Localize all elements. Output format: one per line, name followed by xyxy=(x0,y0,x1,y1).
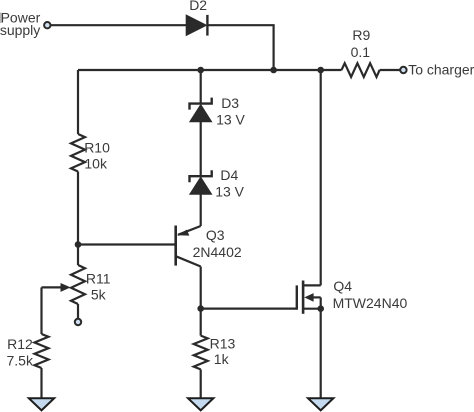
svg-text:R13: R13 xyxy=(210,336,236,352)
svg-text:1k: 1k xyxy=(214,351,230,367)
node: rail / D2 feed junction xyxy=(270,67,277,74)
svg-text:supply: supply xyxy=(0,22,40,38)
svg-text:2N4402: 2N4402 xyxy=(193,244,242,260)
wire: R12 to ground xyxy=(40,368,42,398)
svg-text:R9: R9 xyxy=(352,27,370,43)
ground (Q4 source) xyxy=(308,398,333,410)
label Q3 2N4402 xyxy=(193,227,242,260)
node: R10 / R11 / Q3 base xyxy=(75,241,82,248)
svg-text:Q4: Q4 xyxy=(333,278,352,294)
svg-text:MTW24N40: MTW24N40 xyxy=(333,295,408,311)
transistor Q3 (PNP 2N4402) xyxy=(176,226,201,267)
wire: rail down to Q4 drain xyxy=(320,70,322,285)
wire: rail to D3 cathode xyxy=(200,70,202,104)
terminal: power supply input xyxy=(44,22,50,28)
svg-text:13 V: 13 V xyxy=(215,184,244,200)
svg-text:7.5k: 7.5k xyxy=(7,353,34,369)
zener diode D3 xyxy=(190,98,212,122)
label R11 5k xyxy=(86,270,111,302)
wire: R9 to charger terminal xyxy=(380,69,400,71)
zener diode D4 xyxy=(190,170,212,194)
svg-text:Q3: Q3 xyxy=(206,227,225,243)
wire: R10 to base node xyxy=(77,172,79,245)
svg-text:0.1: 0.1 xyxy=(351,44,371,60)
potentiometer R11 xyxy=(71,245,85,319)
wire: D3 anode to D4 cathode xyxy=(200,122,202,177)
wire: Q3 collector down to gate node xyxy=(200,267,202,309)
svg-text:R11: R11 xyxy=(86,270,111,286)
resistor R10 xyxy=(71,134,85,172)
node: rail / Q4 drain junction xyxy=(317,67,324,74)
label R9 0.1 xyxy=(351,27,371,60)
wire: R11 wiper arm xyxy=(42,283,71,334)
wire: gate node to Q4 gate xyxy=(201,308,297,310)
svg-text:D4: D4 xyxy=(220,167,238,183)
svg-text:To charger: To charger xyxy=(408,61,474,77)
node: rail / zener chain junction xyxy=(197,67,204,74)
wire: D4 anode to Q3 emitter xyxy=(200,194,202,226)
terminal: to charger xyxy=(400,67,406,73)
label Q4 MTW24N40 xyxy=(333,278,408,311)
ground (R12) xyxy=(29,398,54,410)
svg-text:10k: 10k xyxy=(84,156,108,172)
clipped letter fragment at left edge xyxy=(0,13,2,24)
label Power supply xyxy=(0,9,41,38)
label R13 1k xyxy=(210,336,236,367)
node: Q3 collector / R13 / Q4 gate xyxy=(197,305,204,312)
wire: base node to Q3 base xyxy=(78,243,176,245)
MOSFET Q4 (MTW24N40) xyxy=(297,281,321,314)
svg-text:13 V: 13 V xyxy=(216,112,245,128)
node: Q4 source / body junction xyxy=(317,305,324,312)
svg-text:R12: R12 xyxy=(7,336,33,352)
wire: power supply to D2 anode xyxy=(51,24,186,26)
wire: Q4 source to ground xyxy=(320,309,322,398)
resistor R13 xyxy=(194,309,208,398)
ground (R13) xyxy=(188,398,213,410)
terminal: R11 unused end xyxy=(75,319,81,325)
wire: rail down to R10 xyxy=(77,70,79,134)
svg-text:D3: D3 xyxy=(221,95,239,111)
diode D2 xyxy=(186,15,207,36)
label D3 13 V xyxy=(216,95,245,128)
svg-text:R10: R10 xyxy=(84,139,110,155)
wire: D2 cathode to top-right corner xyxy=(207,25,273,70)
resistor R12 xyxy=(35,334,49,368)
svg-text:5k: 5k xyxy=(91,286,107,302)
wire: top rail xyxy=(78,69,342,71)
label D4 13 V xyxy=(215,167,244,200)
label R12 7.5k xyxy=(7,336,34,369)
resistor R9 xyxy=(342,63,380,77)
svg-text:D2: D2 xyxy=(189,0,207,13)
label R10 10k xyxy=(84,139,110,171)
